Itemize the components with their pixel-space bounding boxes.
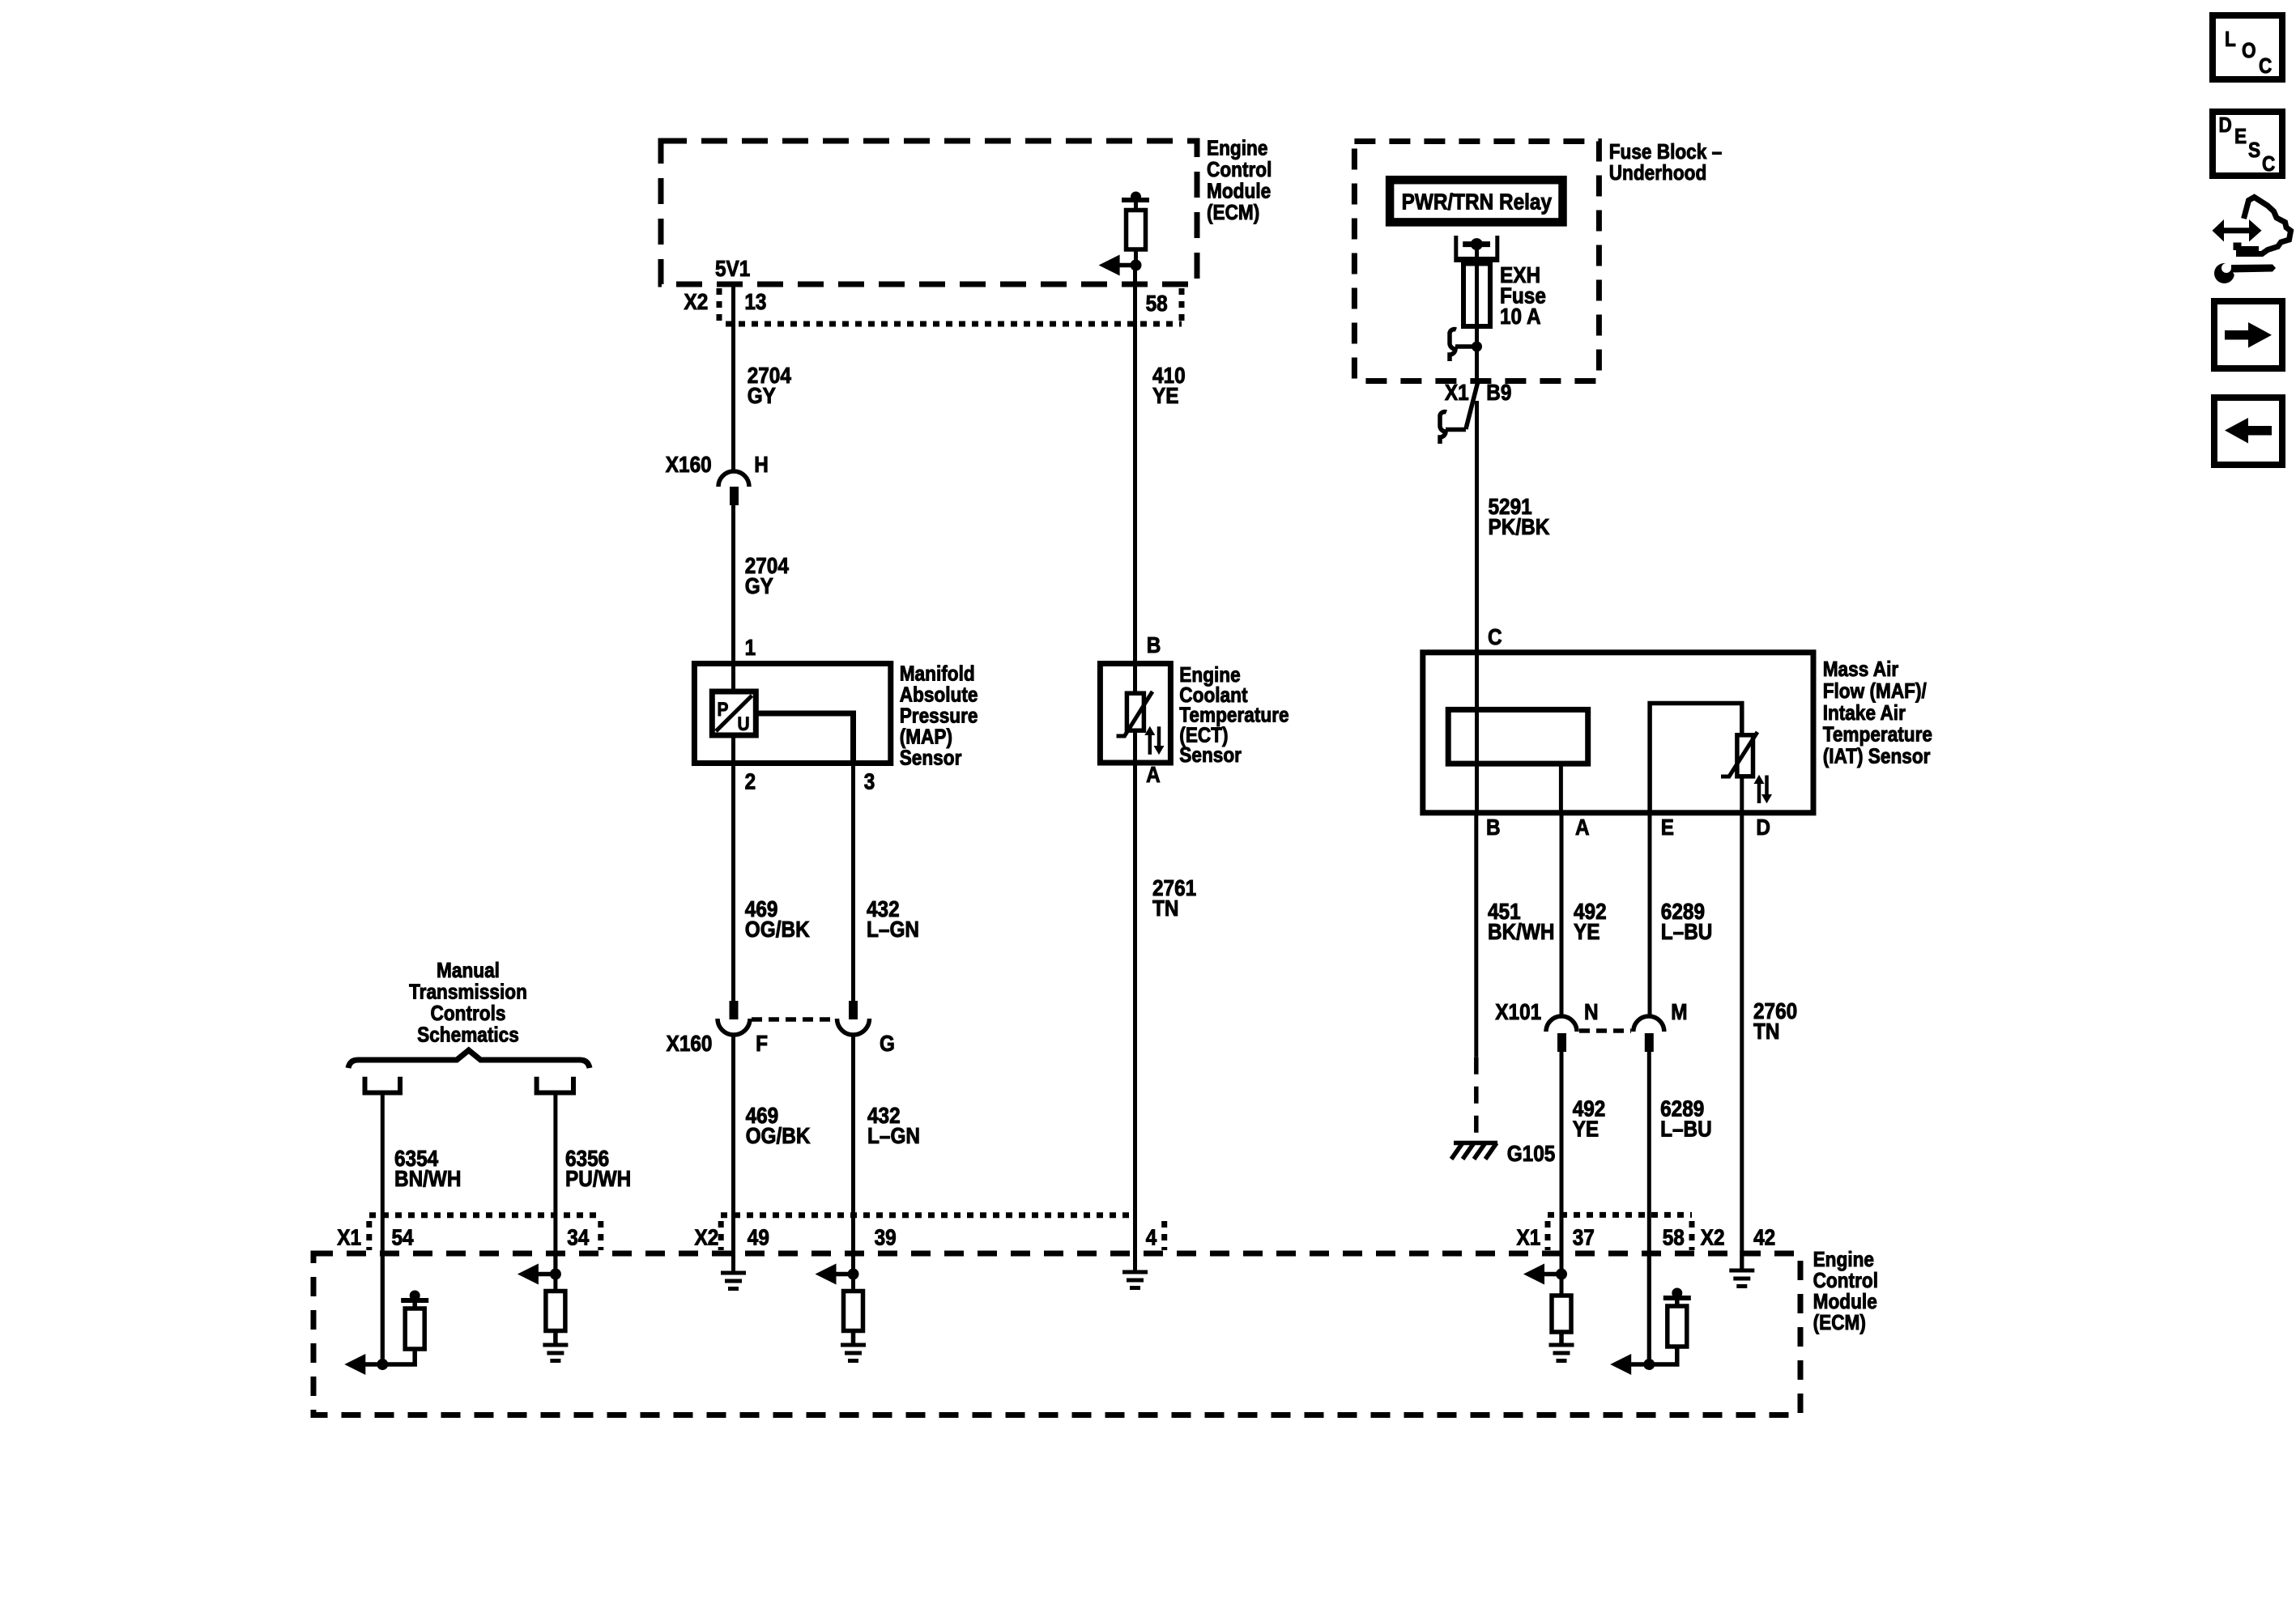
off-page connector (6356) <box>537 1077 573 1093</box>
svg-text:Control: Control <box>1207 157 1272 181</box>
ECM internal at pin 37: arrow, resistor, ground <box>1560 1250 1564 1296</box>
svg-text:L: L <box>2225 27 2236 51</box>
svg-text:D: D <box>2219 113 2232 137</box>
svg-text:1: 1 <box>745 635 756 660</box>
svg-text:C: C <box>2262 151 2275 176</box>
svg-text:P: P <box>718 699 729 721</box>
svg-text:TN: TN <box>1152 896 1179 921</box>
svg-text:PK/BK: PK/BK <box>1489 514 1550 539</box>
svg-text:X160: X160 <box>666 452 712 477</box>
svg-text:13: 13 <box>744 289 766 314</box>
svg-text:X2: X2 <box>695 1225 719 1250</box>
relay output terminal bracket <box>1454 236 1458 257</box>
MAP pin wires through box <box>731 735 735 764</box>
svg-text:58: 58 <box>1146 291 1168 316</box>
svg-text:M: M <box>1671 999 1687 1024</box>
ECM internal at pin 42: ground <box>1740 1250 1744 1269</box>
svg-text:BN/WH: BN/WH <box>394 1166 462 1191</box>
svg-text:42: 42 <box>1753 1225 1775 1250</box>
svg-text:Temperature: Temperature <box>1823 722 1932 747</box>
in-line connector X160 terminal H <box>718 471 749 487</box>
terminal clip inside fuse block <box>1450 330 1456 361</box>
wire 469 OG/BK from MAP 2 to X160 F <box>731 764 735 1001</box>
svg-text:F: F <box>756 1031 768 1056</box>
ECM bottom connector row right (X1/X2) <box>1548 1212 1692 1218</box>
svg-text:BK/WH: BK/WH <box>1488 919 1555 944</box>
LOC icon box <box>2213 15 2282 79</box>
ground G105 <box>1451 1143 1497 1160</box>
ECM internal at pin 58: arrow, pull-up resistor <box>1647 1250 1651 1364</box>
svg-text:(ECM): (ECM) <box>1207 200 1259 224</box>
wire 2704 GY from X160 H to MAP pin 1 <box>731 504 735 664</box>
wire 6354 BN/WH <box>381 1096 385 1365</box>
svg-text:G: G <box>880 1031 895 1056</box>
svg-text:YE: YE <box>1573 1117 1600 1142</box>
svg-text:(ECM): (ECM) <box>1813 1310 1866 1334</box>
MAF element <box>1475 653 1479 710</box>
svg-text:H: H <box>754 452 769 477</box>
wire 492 YE from MAF A to X101 N <box>1560 813 1564 1016</box>
in-line connector X160 terminal F <box>730 1001 739 1019</box>
wire 2704 GY from ECM pin 13 to X160 H <box>731 284 735 471</box>
svg-text:S: S <box>2248 138 2260 162</box>
X101 N-M dashed link <box>1579 1028 1631 1033</box>
signal arrow at ECM pin 58 <box>1099 255 1120 276</box>
svg-text:L–BU: L–BU <box>1660 1117 1712 1142</box>
svg-text:3: 3 <box>864 769 875 794</box>
svg-text:OG/BK: OG/BK <box>746 1123 811 1148</box>
svg-text:OG/BK: OG/BK <box>745 917 810 942</box>
ECM internal at pin 39: arrow, resistor, ground <box>851 1250 855 1291</box>
DESC icon box <box>2213 112 2282 176</box>
IAT thermistor <box>1650 704 1742 813</box>
svg-text:Intake Air: Intake Air <box>1823 700 1906 725</box>
wire 6356 PU/WH <box>553 1096 557 1274</box>
svg-text:D: D <box>1756 815 1770 840</box>
svg-text:58: 58 <box>1663 1225 1685 1250</box>
svg-text:L–GN: L–GN <box>867 1123 920 1148</box>
ECM internal at pin 34: arrow, resistor, ground <box>553 1250 557 1291</box>
svg-text:(IAT) Sensor: (IAT) Sensor <box>1823 743 1931 768</box>
wire 432 L-GN from X160 G to ECM 39 <box>851 1035 855 1274</box>
hand/wrench icon <box>2213 198 2291 284</box>
svg-text:Sensor: Sensor <box>900 745 962 769</box>
PWR/TRN Relay box <box>1390 180 1562 222</box>
ECM bottom connector row left (X1/X2) <box>369 1212 601 1218</box>
wire 5291 PK/BK from B9 to MAF C <box>1475 401 1479 653</box>
Engine Control Module (ECM) top dashed box <box>661 141 1197 284</box>
svg-text:PU/WH: PU/WH <box>565 1166 631 1191</box>
next-page arrow icon <box>2214 301 2282 368</box>
resistor inside ECM (pin 58 pull-up) <box>1131 192 1141 202</box>
svg-text:A: A <box>1146 762 1161 787</box>
prev-page arrow icon <box>2214 398 2282 465</box>
svg-text:Controls: Controls <box>431 1001 506 1025</box>
wire 410 YE from ECM 58 to ECT B <box>1133 266 1137 664</box>
svg-text:GY: GY <box>748 383 776 408</box>
Engine Coolant Temperature (ECT) Sensor box <box>1100 664 1170 764</box>
svg-text:G105: G105 <box>1507 1141 1556 1166</box>
svg-text:39: 39 <box>875 1225 897 1250</box>
wire 492 YE from X101 N to ECM 37 <box>1560 1052 1564 1274</box>
ECM internal at pin 54: arrow, pull-up resistor <box>381 1250 385 1364</box>
svg-text:37: 37 <box>1573 1225 1595 1250</box>
X160 F-G dashed link <box>752 1017 835 1022</box>
svg-text:L–GN: L–GN <box>867 917 919 942</box>
svg-text:B9: B9 <box>1486 380 1511 405</box>
in-line connector X101 terminal N <box>1546 1016 1577 1032</box>
svg-text:Manual: Manual <box>437 958 500 982</box>
svg-text:Module: Module <box>1207 179 1271 203</box>
svg-text:Flow (MAF)/: Flow (MAF)/ <box>1823 679 1927 703</box>
svg-text:B: B <box>1486 815 1501 840</box>
wire 451 BK/WH from MAF B <box>1474 813 1478 1057</box>
svg-text:X160: X160 <box>667 1031 713 1056</box>
svg-text:U: U <box>738 713 750 735</box>
svg-text:L–BU: L–BU <box>1661 919 1713 944</box>
Manifold Absolute Pressure (MAP) Sensor box <box>694 664 890 764</box>
svg-text:Underhood: Underhood <box>1609 160 1707 185</box>
svg-text:Schematics: Schematics <box>417 1023 519 1047</box>
svg-text:E: E <box>1661 815 1674 840</box>
svg-text:TN: TN <box>1753 1019 1780 1044</box>
svg-text:5V1: 5V1 <box>715 256 750 281</box>
ECM internal at pin 4: ground <box>1133 1250 1137 1270</box>
svg-text:YE: YE <box>1152 383 1179 408</box>
junction at ECM pin 58 <box>1131 260 1142 271</box>
svg-text:Mass Air: Mass Air <box>1823 657 1899 681</box>
svg-text:34: 34 <box>567 1225 589 1250</box>
Engine Control Module (ECM) bottom dashed box <box>313 1253 1800 1415</box>
svg-text:YE: YE <box>1574 919 1600 944</box>
svg-text:GY: GY <box>745 573 773 598</box>
in-line connector X101 terminal M <box>1634 1016 1664 1032</box>
svg-text:54: 54 <box>392 1225 414 1250</box>
off-page connector (6354) <box>365 1077 401 1093</box>
svg-text:C: C <box>2259 53 2272 78</box>
dashed wire to G105 <box>1474 1057 1479 1140</box>
svg-text:B: B <box>1147 632 1161 657</box>
svg-text:Engine: Engine <box>1207 136 1267 160</box>
svg-text:2: 2 <box>745 769 756 794</box>
fuse EXH 10 A <box>1463 264 1490 327</box>
Mass Air Flow (MAF)/Intake Air Temperature (IAT) Sensor box <box>1423 653 1813 813</box>
wire 432 L-GN from MAP 3 to X160 G <box>851 764 855 1001</box>
svg-text:O: O <box>2242 38 2256 62</box>
in-line connector X160 terminal G <box>849 1001 858 1019</box>
svg-text:10 A: 10 A <box>1500 304 1541 329</box>
svg-text:X101: X101 <box>1495 999 1541 1024</box>
svg-text:X2: X2 <box>1701 1225 1725 1250</box>
ECT thermistor symbol <box>1133 664 1137 694</box>
svg-text:X2: X2 <box>684 289 709 314</box>
svg-text:C: C <box>1488 624 1502 649</box>
svg-text:X1: X1 <box>1445 380 1469 405</box>
wire 6289 L-BU from MAF E to X101 M <box>1648 813 1652 1016</box>
wire 469 OG/BK from X160 F to ECM 49 <box>731 1035 735 1272</box>
Fuse Block - Underhood dashed box <box>1354 142 1599 381</box>
svg-text:Transmission: Transmission <box>409 980 527 1004</box>
svg-text:X1: X1 <box>337 1225 361 1250</box>
wire 2761 TN from ECT A to ECM 4 <box>1133 763 1137 1270</box>
svg-text:A: A <box>1575 815 1590 840</box>
brace <box>348 1050 590 1068</box>
svg-text:N: N <box>1584 999 1599 1024</box>
svg-text:4: 4 <box>1146 1225 1157 1250</box>
svg-text:PWR/TRN Relay: PWR/TRN Relay <box>1402 189 1553 214</box>
MAP P/U transducer symbol <box>731 664 735 692</box>
wire 6289 L-BU from X101 M to ECM 58 <box>1647 1052 1651 1364</box>
svg-text:E: E <box>2234 124 2247 148</box>
svg-text:49: 49 <box>748 1225 769 1250</box>
svg-text:Sensor: Sensor <box>1179 743 1242 767</box>
wire from fuse to fuse block exit <box>1475 326 1479 381</box>
MAP internal wire to pin 3 <box>756 711 856 717</box>
ECM internal at pin 49: ground <box>731 1250 735 1272</box>
svg-text:X1: X1 <box>1517 1225 1541 1250</box>
wire 2760 TN from MAF D to ECM 42 <box>1740 813 1744 1269</box>
